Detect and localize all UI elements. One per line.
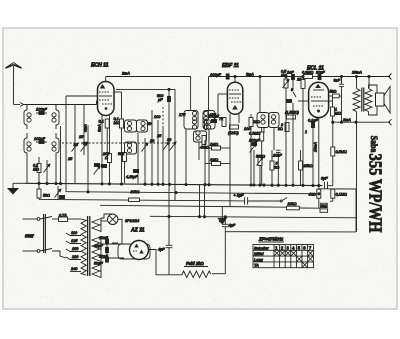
resistor 7k	[219, 117, 226, 127]
wire grid avc	[65, 96, 67, 192]
svg-text:Ω: Ω	[105, 156, 108, 160]
wire grid	[66, 95, 98, 97]
svg-text:50kΩ: 50kΩ	[256, 155, 265, 159]
bus D	[100, 205, 287, 207]
small caps row	[94, 164, 139, 180]
cap 8uF electrolytic inline busC	[234, 194, 281, 205]
resistor cathode 0.1M	[99, 119, 110, 157]
rectifier AZ11	[118, 228, 150, 260]
svg-text:1: 1	[305, 130, 307, 134]
pot 50k volume	[256, 155, 265, 186]
cap 40uF	[158, 245, 172, 274]
speaker	[369, 85, 391, 115]
switch contact 5	[291, 88, 296, 97]
cap below bus	[59, 196, 64, 199]
svg-text:kΩ: kΩ	[278, 127, 283, 131]
secondary top	[92, 219, 101, 232]
IF1 secondary box	[203, 111, 217, 130]
bus C	[39, 199, 244, 201]
wire plate	[114, 91, 122, 93]
wire tube top	[105, 77, 107, 82]
wire rail to IF1	[190, 77, 192, 111]
svg-text:5kΩ: 5kΩ	[43, 194, 50, 198]
tuning gang arrows	[72, 105, 89, 184]
svg-text:20nF: 20nF	[272, 154, 282, 158]
resistor 25k left stub	[299, 150, 313, 186]
wires below IF1	[185, 129, 187, 183]
cap 3nF	[334, 77, 345, 123]
gang dashed line	[62, 142, 174, 144]
switch table	[253, 245, 314, 268]
svg-text:150: 150	[72, 247, 79, 251]
svg-text:40Ω: 40Ω	[309, 192, 316, 196]
svg-text:MΩ: MΩ	[114, 121, 120, 125]
variable cap below bus	[55, 186, 62, 199]
svg-text:1MΩ: 1MΩ	[210, 158, 218, 162]
misc small labels	[67, 115, 307, 161]
svg-text:AZ 11: AZ 11	[130, 228, 145, 234]
tube ECL11	[307, 66, 329, 118]
svg-text:Schalter: Schalter	[254, 245, 269, 250]
paper speckle	[5, 31, 397, 307]
capacitor 100pF upper	[36, 108, 47, 115]
svg-text:1nF: 1nF	[287, 71, 294, 75]
wire L1 to bus	[26, 157, 28, 183]
osc coil box 2	[137, 120, 148, 132]
osc trim caps	[138, 133, 148, 183]
resistor 200 ohm	[102, 152, 112, 183]
rail arrow right	[351, 71, 392, 80]
svg-text:20kΩ: 20kΩ	[130, 190, 140, 194]
cap 0.1uF	[308, 119, 318, 128]
resistors 1M pair	[205, 140, 230, 185]
cap+coil left of tube	[205, 115, 220, 141]
svg-text:0,3MΩ: 0,3MΩ	[249, 132, 260, 136]
svg-text:1kΩ: 1kΩ	[253, 120, 260, 124]
resistor 0.1M	[33, 157, 41, 183]
Feld choke	[156, 261, 225, 278]
svg-text:240: 240	[70, 267, 78, 271]
transformer core	[88, 216, 90, 276]
resistor 0.1M right	[330, 189, 347, 201]
cap 20nF	[272, 150, 282, 185]
ground	[8, 183, 25, 194]
svg-text:2mA: 2mA	[121, 72, 130, 76]
wire rail to IF2	[259, 77, 261, 113]
svg-text:220: 220	[71, 255, 79, 259]
cap 8uF inline bus	[321, 177, 333, 190]
svg-text:3nF: 3nF	[334, 79, 341, 83]
coil L1 bottom	[24, 133, 31, 157]
plate line ECH11	[116, 88, 175, 90]
svg-text:50W: 50W	[25, 234, 35, 239]
svg-text:0,1µF: 0,1µF	[308, 119, 318, 123]
svg-text:4,3kpF: 4,3kpF	[126, 175, 138, 179]
svg-text:60Ω: 60Ω	[321, 204, 328, 208]
resistor 1.5M	[285, 111, 300, 120]
label ZF=473kHz	[258, 237, 284, 243]
svg-text:pF: pF	[157, 98, 163, 102]
wire primary bottom	[356, 112, 358, 232]
dial lamp	[101, 214, 139, 244]
resistor 0.3M top	[302, 71, 313, 79]
svg-text:Feld 2kΩ: Feld 2kΩ	[186, 261, 204, 266]
variable cap input	[44, 160, 51, 183]
resistor 2k	[278, 123, 289, 132]
svg-text:5kΩ: 5kΩ	[330, 90, 337, 94]
rail EBF11/ECL11	[209, 76, 292, 78]
bus B2 right	[319, 188, 356, 190]
svg-text:355 WP/WH: 355 WP/WH	[365, 154, 385, 233]
svg-text:100: 100	[244, 127, 251, 131]
top rail	[106, 76, 191, 78]
tube ECH11	[91, 63, 114, 116]
cap 4uF right	[219, 217, 236, 274]
verticals to busE	[199, 185, 201, 217]
svg-text:100pF: 100pF	[36, 108, 47, 112]
cap 500pF	[157, 89, 171, 245]
osc coil box 1	[125, 120, 137, 132]
svg-text:0,3MΩ: 0,3MΩ	[302, 71, 313, 75]
wire grid	[218, 93, 227, 95]
wire to transformer	[368, 77, 370, 89]
svg-text:Mittel: Mittel	[254, 251, 264, 256]
capacitor 100pF lower	[34, 137, 47, 144]
caps near AZ11	[94, 236, 118, 266]
ground mid	[218, 207, 226, 224]
resistor 5k below bus	[37, 183, 50, 199]
bus chassis	[25, 183, 323, 185]
svg-text:20µF: 20µF	[315, 71, 325, 75]
svg-text:Lang: Lang	[254, 257, 264, 262]
svg-text:110: 110	[71, 231, 78, 235]
svg-text:Saba: Saba	[369, 136, 379, 153]
cap left	[286, 100, 291, 103]
mains switch	[40, 214, 52, 253]
resistor 1k	[249, 114, 260, 185]
svg-text:40µF: 40µF	[94, 244, 103, 248]
svg-text:5mA: 5mA	[246, 73, 254, 77]
wire antenna down	[60, 126, 62, 183]
cap 100uF inline rail	[210, 73, 229, 79]
voltage taps	[66, 231, 81, 272]
svg-text:4µF: 4µF	[229, 224, 236, 228]
svg-text:28mA: 28mA	[351, 71, 362, 75]
resistor 60 ohm boxed	[320, 203, 328, 212]
svg-text:8µF: 8µF	[321, 177, 328, 181]
resistor 0.1M osc	[114, 117, 124, 183]
svg-text:125: 125	[71, 239, 78, 243]
resistor 0.3M	[249, 128, 264, 186]
coil L1 top	[24, 105, 31, 130]
wire 3mA	[333, 118, 392, 125]
coil box lower	[194, 131, 210, 150]
coil L2 top	[52, 105, 59, 130]
cap 100pF agc	[249, 139, 260, 186]
vertical wires mid	[151, 110, 153, 183]
svg-text:25: 25	[67, 157, 73, 161]
svg-text:10mA: 10mA	[314, 142, 318, 152]
right edge vertical	[355, 189, 357, 232]
svg-text:MΩ: MΩ	[335, 112, 341, 116]
transformer primary zigzag	[81, 219, 86, 275]
resistor 0.5M right	[331, 122, 347, 185]
fuse 0.7A	[52, 214, 81, 222]
resistor 5k right	[329, 90, 342, 98]
tube EBF11	[222, 63, 243, 114]
wires below tube	[101, 116, 103, 184]
svg-text:100: 100	[154, 115, 161, 119]
wires ECL11	[285, 103, 287, 185]
svg-text:175: 175	[179, 113, 186, 117]
svg-text:EBF 11: EBF 11	[222, 63, 239, 69]
IF2 secondary box	[269, 113, 280, 128]
svg-text:MΩ: MΩ	[33, 168, 39, 172]
svg-text:25kΩ: 25kΩ	[303, 164, 313, 168]
svg-text:(1,5MΩ): (1,5MΩ)	[285, 111, 300, 115]
svg-text:3mA: 3mA	[343, 118, 351, 122]
resistor 25k	[296, 77, 305, 98]
svg-text:0,1MΩ: 0,1MΩ	[336, 192, 347, 196]
cap 1nF	[287, 71, 295, 89]
resistor 20k (busD right)	[287, 202, 300, 210]
svg-text:100pF: 100pF	[34, 137, 45, 141]
gang dashed vertical	[162, 107, 164, 128]
coil L2 bottom	[52, 133, 59, 157]
mains wires	[23, 218, 40, 253]
varcaps mid	[163, 142, 177, 151]
osc coil lower box	[125, 142, 137, 154]
output transformer primary	[353, 89, 360, 112]
wire tube top	[234, 77, 236, 83]
svg-text:6mA: 6mA	[98, 124, 102, 132]
wire IF2 sec down	[263, 128, 265, 134]
IF1 primary box	[179, 111, 198, 130]
wire L2 to bus	[55, 157, 57, 183]
resistor 1M right	[331, 98, 342, 122]
bus F	[225, 231, 356, 233]
svg-text:4µF: 4µF	[158, 248, 165, 252]
secondary mid	[92, 237, 101, 262]
wire antenna to input	[24, 104, 97, 106]
svg-text:100µF: 100µF	[210, 73, 222, 77]
svg-text:0,5MΩ: 0,5MΩ	[336, 150, 347, 154]
bus B	[66, 192, 319, 194]
bus E	[150, 216, 356, 218]
cap 20uF	[315, 71, 325, 80]
output transformer secondary	[365, 89, 372, 112]
svg-text:+ 8µF: + 8µF	[234, 194, 245, 198]
core	[362, 88, 364, 112]
resistor 20k busC	[129, 190, 140, 202]
resistor 50k	[118, 150, 127, 183]
resistor 5k	[270, 150, 279, 185]
wires AZ11	[101, 244, 156, 275]
secondary bottom	[92, 265, 101, 278]
switch contact busC	[280, 198, 287, 203]
pot 0.5M	[281, 70, 289, 104]
svg-text:0,1: 0,1	[99, 120, 104, 124]
antenna	[6, 63, 24, 107]
resistor below tube	[228, 114, 239, 207]
svg-text:100pF: 100pF	[249, 139, 260, 143]
wire to taps	[52, 251, 66, 258]
resistor 40 ohm	[309, 189, 321, 208]
svg-text:TA: TA	[254, 263, 259, 268]
IF2 primary box	[257, 113, 269, 128]
svg-text:ZF=473kHz: ZF=473kHz	[258, 237, 284, 242]
wire primary top	[356, 77, 358, 89]
